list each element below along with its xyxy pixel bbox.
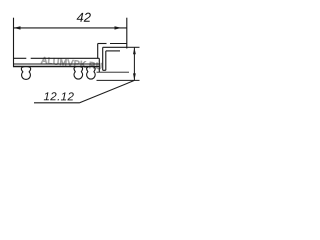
svg-text:42: 42 <box>76 10 91 25</box>
svg-text:ALUMVPK.RU: ALUMVPK.RU <box>41 55 103 71</box>
svg-text:12.12: 12.12 <box>43 91 74 103</box>
